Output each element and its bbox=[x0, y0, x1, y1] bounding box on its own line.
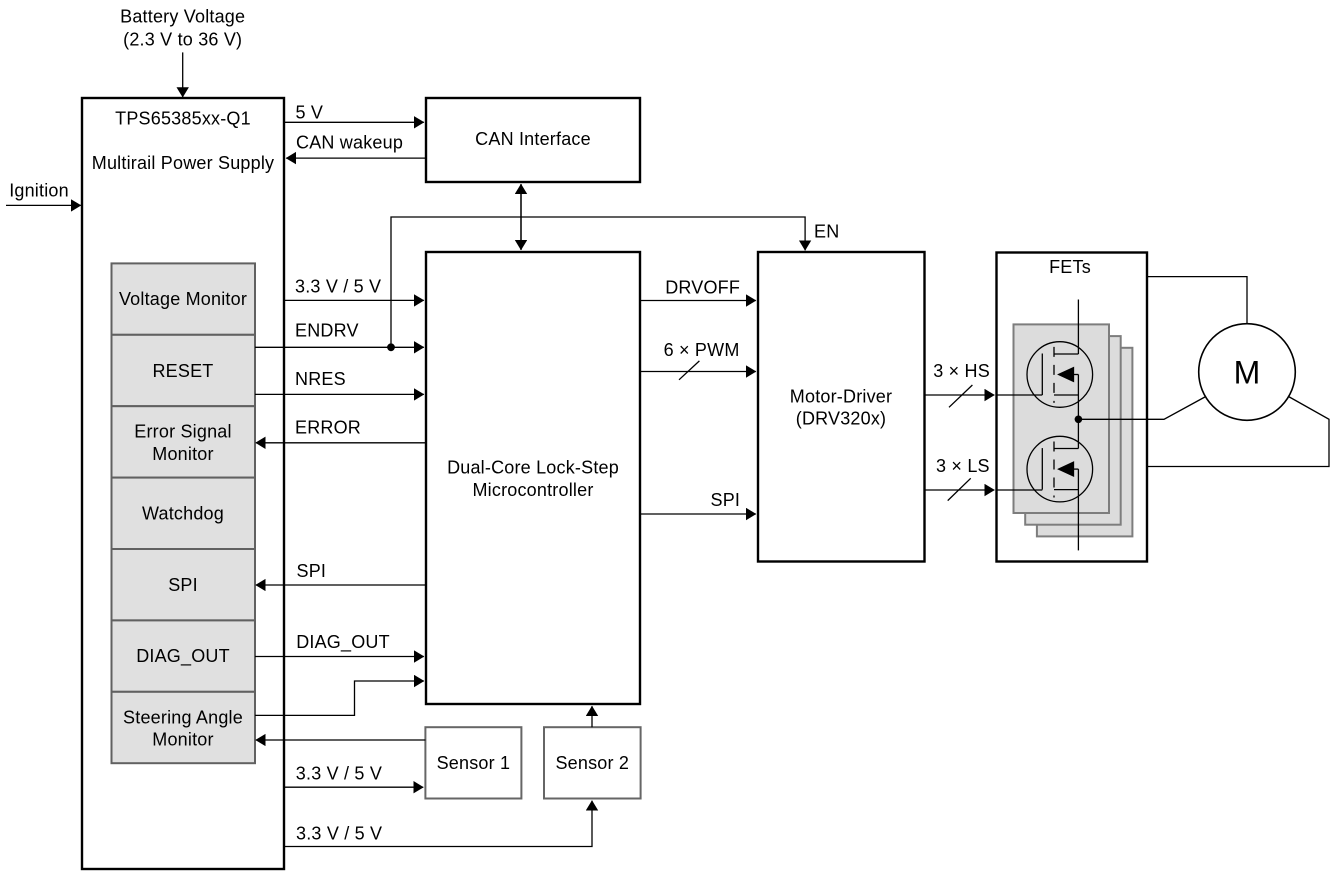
svg-text:ENDRV: ENDRV bbox=[295, 321, 359, 341]
svg-text:5 V: 5 V bbox=[296, 102, 324, 122]
svg-text:Monitor: Monitor bbox=[152, 730, 213, 750]
block TPS65385xx-Q1 Multirail Power Supply bbox=[82, 98, 284, 869]
svg-text:M: M bbox=[1234, 355, 1261, 391]
svg-text:NRES: NRES bbox=[295, 369, 346, 389]
svg-text:DRVOFF: DRVOFF bbox=[665, 278, 740, 298]
block Sensor 1 bbox=[425, 727, 521, 798]
wire HS source to LS drain bbox=[1077, 375, 1079, 449]
block CAN Interface bbox=[426, 98, 640, 182]
block SPI bbox=[112, 549, 256, 620]
node ENDRV junction bbox=[387, 343, 395, 351]
block Dual-Core Lock-Step Microcontroller U2 bbox=[426, 252, 640, 704]
svg-text:6 × PWM: 6 × PWM bbox=[664, 340, 740, 360]
block Sensor 2 bbox=[544, 727, 641, 798]
wire LS source rail bbox=[1077, 469, 1079, 550]
block Steering Angle Monitor bbox=[112, 692, 256, 763]
svg-text:Watchdog: Watchdog bbox=[142, 503, 224, 523]
motor M1 bbox=[1199, 324, 1296, 421]
svg-text:Battery Voltage: Battery Voltage bbox=[120, 7, 245, 27]
svg-text:3 × LS: 3 × LS bbox=[936, 456, 990, 476]
wire FET drain rail bbox=[1077, 300, 1079, 355]
block FETs bbox=[997, 253, 1148, 562]
svg-text:Multirail Power Supply: Multirail Power Supply bbox=[92, 153, 274, 173]
node phase junction bbox=[1075, 416, 1083, 424]
wire CAN to microcontroller bidirectional bbox=[520, 184, 522, 250]
svg-text:3.3 V / 5 V: 3.3 V / 5 V bbox=[296, 764, 382, 784]
block DIAG_OUT bbox=[112, 620, 256, 691]
wire HS gate lead bbox=[997, 394, 1043, 396]
svg-text:CAN wakeup: CAN wakeup bbox=[296, 133, 403, 153]
wire sensor 2 to microcontroller bbox=[591, 706, 593, 727]
FET stack panel 2 bbox=[1025, 336, 1121, 525]
svg-text:Monitor: Monitor bbox=[152, 444, 213, 464]
block Error Signal Monitor bbox=[112, 406, 256, 477]
svg-text:RESET: RESET bbox=[152, 361, 213, 381]
svg-text:Microcontroller: Microcontroller bbox=[472, 480, 593, 500]
svg-text:Steering Angle: Steering Angle bbox=[123, 707, 243, 727]
svg-text:DIAG_OUT: DIAG_OUT bbox=[136, 646, 230, 667]
wire phase B junction to motor bbox=[1078, 397, 1205, 420]
svg-text:CAN Interface: CAN Interface bbox=[475, 129, 591, 149]
svg-text:SPI: SPI bbox=[168, 575, 198, 595]
wire ignition input bbox=[6, 204, 81, 206]
svg-text:(DRV320x): (DRV320x) bbox=[796, 409, 887, 429]
svg-text:DIAG_OUT: DIAG_OUT bbox=[296, 632, 390, 653]
svg-text:Ignition: Ignition bbox=[9, 180, 69, 200]
block Watchdog bbox=[112, 478, 256, 549]
wire sensor 1 to steering angle monitor bbox=[256, 739, 426, 741]
svg-text:(2.3 V to 36 V): (2.3 V to 36 V) bbox=[123, 30, 242, 50]
svg-text:SPI: SPI bbox=[297, 561, 327, 581]
block Motor-Driver DRV320x bbox=[758, 252, 925, 562]
svg-text:Motor-Driver: Motor-Driver bbox=[790, 386, 892, 406]
svg-text:Error Signal: Error Signal bbox=[134, 422, 231, 442]
transistor Q1 high-side MOSFET bbox=[1027, 342, 1093, 408]
svg-text:FETs: FETs bbox=[1049, 257, 1091, 277]
wire battery voltage input bbox=[182, 52, 184, 97]
svg-text:Sensor 2: Sensor 2 bbox=[555, 753, 629, 773]
wire phase C motor return bbox=[1147, 397, 1329, 467]
FET stack panel 3 bbox=[1037, 348, 1133, 537]
wire steering angle monitor to microcontroller bbox=[255, 681, 424, 715]
wire phase A top to motor bbox=[1147, 277, 1247, 324]
transistor Q2 low-side MOSFET bbox=[1027, 436, 1093, 502]
block Voltage Monitor bbox=[112, 263, 256, 334]
svg-text:Dual-Core Lock-Step: Dual-Core Lock-Step bbox=[447, 458, 619, 478]
svg-text:TPS65385xx-Q1: TPS65385xx-Q1 bbox=[115, 109, 251, 129]
svg-text:3.3 V / 5 V: 3.3 V / 5 V bbox=[296, 823, 382, 843]
svg-text:ERROR: ERROR bbox=[295, 418, 361, 438]
svg-text:3 × HS: 3 × HS bbox=[933, 361, 990, 381]
svg-text:Voltage Monitor: Voltage Monitor bbox=[119, 289, 247, 309]
FET stack panel 1 bbox=[1014, 324, 1110, 513]
block RESET bbox=[112, 335, 256, 406]
svg-text:EN: EN bbox=[814, 221, 839, 241]
svg-text:Sensor 1: Sensor 1 bbox=[437, 753, 511, 773]
wire LS gate lead bbox=[997, 489, 1043, 491]
svg-text:SPI: SPI bbox=[711, 490, 741, 510]
svg-text:3.3 V / 5 V: 3.3 V / 5 V bbox=[295, 276, 381, 296]
